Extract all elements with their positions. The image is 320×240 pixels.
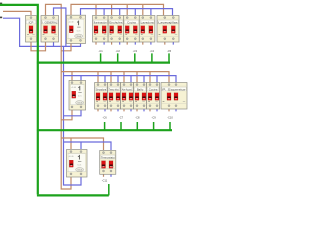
breaker ICP bbox=[26, 16, 37, 43]
wire: phase branch to RCD D1 bottom bbox=[61, 43, 71, 51]
svg-text:Lavadora: Lavadora bbox=[141, 20, 154, 24]
RCD D1 bbox=[67, 15, 86, 43]
wire: row3 phase bus bbox=[61, 138, 103, 150]
breaker C6 bbox=[95, 83, 108, 110]
svg-text:+D 40: +D 40 bbox=[69, 22, 74, 24]
node N supply mark bbox=[0, 17, 2, 19]
RCD D3 bbox=[67, 150, 88, 178]
wire: RCD D2 neutral return to bundle bbox=[64, 110, 82, 116]
breaker C8 bbox=[121, 83, 134, 110]
svg-text:I. GENERAL: I. GENERAL bbox=[42, 20, 57, 24]
svg-text:Termostato: Termostato bbox=[101, 155, 115, 159]
wire: row1 phase drops bbox=[95, 4, 97, 15]
wire: row1 neutral bus from RCD D1 top bbox=[81, 9, 173, 16]
wire: row3 neutral bus bbox=[64, 142, 112, 150]
svg-text:+D 40: +D 40 bbox=[69, 156, 74, 158]
RCD D2 bbox=[69, 81, 86, 111]
breaker C9 bbox=[134, 83, 147, 110]
wire: RCD D2 phase return to bundle bbox=[61, 110, 72, 120]
wire: green bus row1 circuit stubs C1-C5 bbox=[101, 53, 169, 62]
svg-text:Iluminación: Iluminación bbox=[94, 20, 107, 24]
wire: row3 breaker output stubs bbox=[103, 174, 105, 177]
wire: green bus row2 bbox=[37, 129, 172, 131]
breaker C2 bbox=[108, 16, 124, 43]
svg-text:-C11: -C11 bbox=[102, 179, 108, 183]
wire: row2 breaker output stubs bbox=[98, 109, 169, 112]
breaker C1 bbox=[93, 16, 109, 43]
svg-text:-C9: -C9 bbox=[152, 116, 157, 120]
svg-text:Lavavajillas: Lavavajillas bbox=[158, 20, 178, 24]
wire: neutral riser from I.GENERAL top bbox=[54, 8, 66, 46]
svg-text:Termo eléct.: Termo eléct. bbox=[109, 87, 120, 91]
wire: neutral stub I.GENERAL bottom bbox=[53, 42, 55, 47]
svg-text:Icc 6: Icc 6 bbox=[77, 30, 81, 32]
svg-text:Icc 6: Icc 6 bbox=[78, 96, 82, 98]
svg-text:Secadora: Secadora bbox=[96, 87, 107, 91]
svg-text:-C10: -C10 bbox=[167, 116, 173, 120]
breaker C10 bbox=[147, 83, 160, 110]
breaker C5 bbox=[157, 16, 179, 43]
svg-text:Cocina: Cocina bbox=[149, 87, 158, 91]
wire: row3 neutral drop RCD D3 bbox=[80, 142, 82, 149]
svg-text:Icc 6: Icc 6 bbox=[78, 165, 82, 167]
breaker C4 bbox=[139, 16, 155, 43]
wire: green bus row2 circuit stubs C6-C10 bbox=[105, 122, 170, 130]
breaker C7 bbox=[108, 83, 121, 110]
wire: row2 neutral bus bbox=[64, 76, 177, 84]
svg-text:-C6: -C6 bbox=[103, 116, 108, 120]
wire: row1 phase bus from RCD D1 top bbox=[71, 4, 164, 15]
svg-text:P. Superior: P. Superior bbox=[162, 87, 186, 91]
wire: phase feed into ICP bbox=[3, 11, 31, 15]
wire: ICP output to I.GENERAL bottom bbox=[31, 42, 46, 51]
svg-text:Baño: Baño bbox=[137, 87, 144, 91]
svg-text:-C8: -C8 bbox=[135, 116, 140, 120]
breaker C11 bbox=[100, 151, 116, 175]
svg-text:-C7: -C7 bbox=[119, 116, 124, 120]
wire: row1 breaker output stubs bbox=[96, 42, 165, 45]
wire: green bus row3 bbox=[37, 194, 109, 196]
svg-text:-C2: -C2 bbox=[116, 49, 121, 53]
breaker C10b bbox=[161, 83, 187, 110]
svg-text:ICP: ICP bbox=[29, 20, 34, 24]
wire: neutral feed under ICP to RCD D1 bbox=[3, 18, 81, 46]
wire: green stub C11 bbox=[108, 184, 110, 195]
svg-text:Enchufes: Enchufes bbox=[109, 20, 123, 24]
svg-text:Aire Acond.: Aire Acond. bbox=[122, 87, 133, 91]
svg-text:-C3: -C3 bbox=[133, 49, 138, 53]
wire: row3 phase drop RCD D3 bbox=[70, 138, 72, 149]
wire: green bus row1 bbox=[37, 61, 170, 63]
wire: row1 neutral drops bbox=[103, 9, 105, 15]
svg-text:Cocina: Cocina bbox=[127, 20, 136, 24]
svg-text:-C1: -C1 bbox=[99, 49, 104, 53]
wire: row2 phase drops bbox=[71, 72, 73, 84]
node L supply mark bbox=[0, 3, 2, 5]
breaker I.GENERAL bbox=[41, 16, 59, 43]
wire: row2 phase bus bbox=[61, 72, 169, 84]
wire: phase riser from I.GENERAL top - left bundle bbox=[46, 4, 72, 189]
wire: neutral drop left bundle to RCD D3 bbox=[64, 46, 82, 185]
wire: main green feeder bbox=[0, 5, 38, 195]
svg-text:-C4: -C4 bbox=[150, 49, 155, 53]
svg-text:+D 40: +D 40 bbox=[71, 87, 76, 89]
svg-text:-C5: -C5 bbox=[167, 49, 172, 53]
breaker C3 bbox=[124, 16, 140, 43]
wire: row2 neutral drops bbox=[80, 76, 82, 84]
